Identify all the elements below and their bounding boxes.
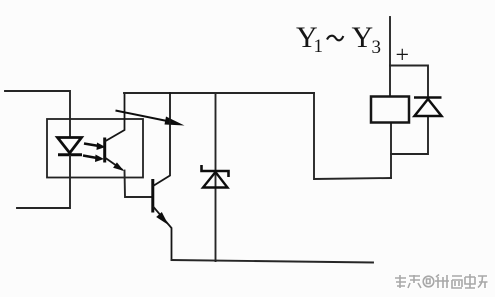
relay coil K bbox=[371, 97, 409, 123]
top rail bbox=[124, 92, 314, 94]
light arrow 2 bbox=[83, 156, 97, 159]
flyback diode VD triangle bbox=[415, 99, 442, 116]
LED D1 (triangle pointing down) bbox=[58, 138, 82, 154]
wire: LED cathode down and bottom-left lead bbox=[17, 156, 70, 208]
bottom rail bbox=[172, 260, 374, 263]
zener diode wire bbox=[215, 93, 217, 261]
wire: right side down-run from top rail bbox=[314, 93, 391, 179]
Q2 collector bbox=[154, 93, 170, 186]
wire: main vertical supply bbox=[389, 17, 391, 97]
phototransistor base bar bbox=[103, 138, 106, 163]
transistor Q2 base bar bbox=[151, 179, 154, 213]
zener diode VZ bbox=[202, 165, 229, 177]
wire: emitter down to Q2 base bbox=[125, 171, 152, 198]
svg-text:3: 3 bbox=[372, 37, 382, 58]
Q2 emitter with arrow bbox=[154, 207, 172, 260]
wire: top-left input lead bbox=[5, 91, 70, 137]
long light-coupling arrow bbox=[116, 111, 173, 123]
phototransistor collector bbox=[106, 93, 125, 141]
svg-text:1: 1 bbox=[314, 36, 324, 57]
phototransistor emitter with arrow bbox=[106, 158, 123, 170]
watermark (vector strokes imitating gray CJK text) bbox=[396, 275, 489, 289]
light arrow 1 bbox=[84, 144, 99, 147]
LED cathode bar bbox=[58, 153, 82, 156]
svg-text:+: + bbox=[396, 43, 410, 69]
label Y1 ~ Y3 bbox=[296, 21, 381, 58]
wire: branch to flyback diode bbox=[390, 66, 428, 98]
flyback diode VD cathode bar bbox=[414, 96, 442, 99]
svg-text:Y: Y bbox=[352, 21, 374, 54]
wire: relay coil bottom bbox=[390, 123, 392, 179]
wire: coil/diode bottom junction bbox=[391, 117, 428, 155]
optocoupler box bbox=[47, 119, 143, 178]
